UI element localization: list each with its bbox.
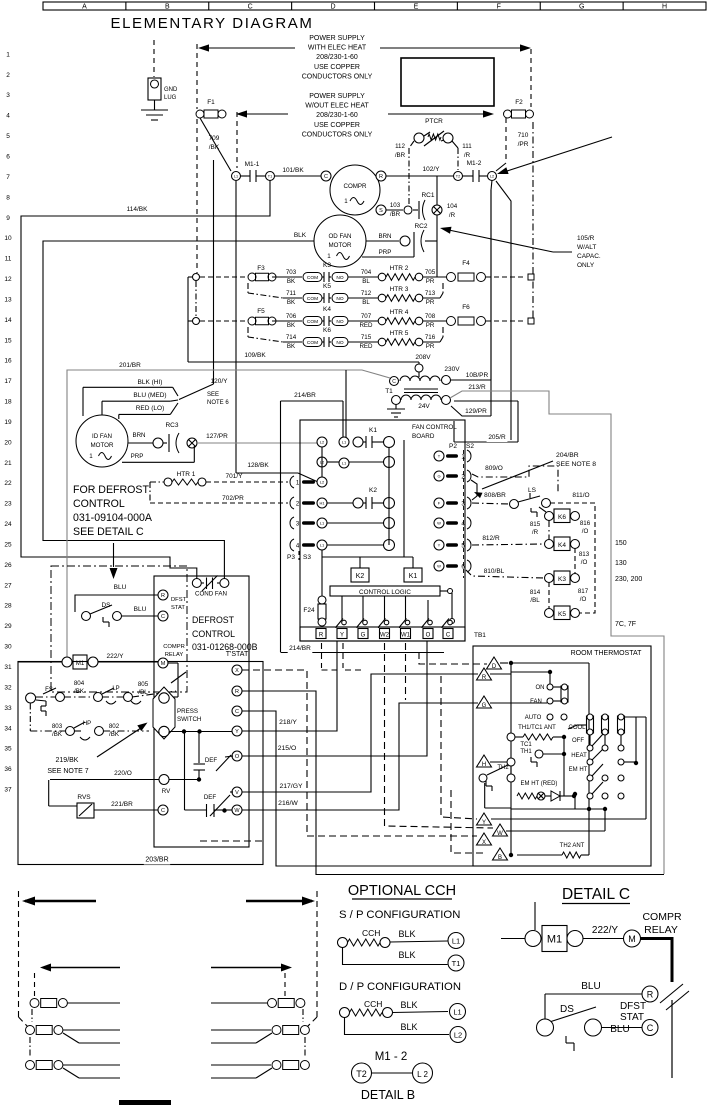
wires L2 drop [496,181,511,440]
svg-text:LUG: LUG [164,95,177,101]
svg-text:T'STAT: T'STAT [226,651,249,658]
svg-text:L1: L1 [320,520,325,525]
wire from T1 C to K1 [345,370,347,442]
svg-text:K1: K1 [369,427,377,434]
svg-text:7C, 7F: 7C, 7F [615,621,636,628]
svg-text:TC1: TC1 [520,742,532,748]
svg-text:F4: F4 [462,260,470,267]
thick wire from M [641,939,673,983]
svg-text:K2: K2 [369,487,377,494]
svg-text:HTR 4: HTR 4 [390,309,409,316]
svg-text:NO: NO [336,319,343,325]
svg-text:O: O [426,633,431,639]
svg-text:18: 18 [4,399,12,406]
svg-text:NO: NO [336,275,343,281]
terminal L1 d/p [450,1004,466,1020]
svg-text:USE COPPER: USE COPPER [314,64,360,71]
svg-text:BRN: BRN [378,233,391,240]
svg-text:35: 35 [4,746,12,753]
dashed stub Y terminal [342,643,344,668]
svg-text:M1: M1 [547,934,562,946]
svg-text:T1: T1 [268,174,272,178]
svg-text:SEE DETAIL C: SEE DETAIL C [73,526,144,538]
svg-text:215/O: 215/O [278,745,297,752]
svg-text:150: 150 [615,540,627,547]
terminal W [493,824,508,836]
svg-text:705: 705 [425,269,436,276]
svg-text:R: R [482,675,487,681]
svg-text:G: G [482,703,487,709]
svg-text:C: C [324,174,328,180]
svg-text:808/BR: 808/BR [484,492,506,499]
svg-text:PTCR: PTCR [425,118,443,125]
svg-text:RED (LO): RED (LO) [136,405,165,412]
svg-text:4: 4 [6,113,10,120]
svg-text:FAN: FAN [530,699,542,705]
svg-text:K5: K5 [323,283,331,290]
svg-text:105/R: 105/R [577,235,595,242]
svg-text:817: 817 [578,588,589,595]
svg-text:COM: COM [307,340,318,346]
svg-text:NO: NO [336,340,343,346]
terminal H [477,755,492,767]
svg-text:PR: PR [426,278,435,285]
svg-text:/BK: /BK [109,731,120,738]
svg-text:/O: /O [581,559,588,566]
wire dashes F4 to alt node [486,276,526,278]
svg-text:G: G [579,4,584,11]
svg-text:W/ALT: W/ALT [577,244,596,251]
outer box 203/BR [18,662,263,865]
svg-text:30: 30 [4,644,12,651]
svg-text:815: 815 [530,521,541,528]
wire RED (LO) [134,405,166,414]
svg-text:RV: RV [162,788,171,795]
svg-text:M1-2: M1-2 [467,160,482,167]
svg-text:C: C [161,614,165,620]
svg-text:816: 816 [580,520,591,527]
svg-text:ON: ON [536,685,545,691]
svg-text:T1: T1 [452,959,461,968]
svg-text:PR: PR [426,299,435,306]
svg-text:STAT: STAT [620,1012,644,1023]
svg-text:24: 24 [4,521,12,528]
svg-text:BL: BL [362,278,370,285]
compressor motor COMPR [330,165,380,215]
svg-text:813: 813 [579,551,590,558]
relay coil K2 [351,568,369,582]
svg-text:216/W: 216/W [278,800,298,807]
svg-text:W: W [437,563,441,568]
svg-text:DEF: DEF [205,757,218,764]
dashed drop W2 terminal to W triangle [385,643,494,828]
wire R t-stat [242,691,664,875]
svg-text:K1: K1 [409,573,418,580]
svg-text:DEFROST: DEFROST [192,615,235,625]
svg-text:SEE NOTE 7: SEE NOTE 7 [47,768,88,775]
svg-text:Y: Y [235,729,239,735]
svg-text:C: C [647,1023,654,1033]
relay contact K4 aux [554,537,570,551]
svg-text:EM HT (RED): EM HT (RED) [521,781,558,787]
wire 129/PR [464,408,489,417]
svg-text:33: 33 [4,705,12,712]
motor ID FAN [76,415,128,467]
svg-text:RED: RED [359,322,373,329]
terminal G [477,696,492,708]
svg-text:TB1: TB1 [474,632,486,639]
coil M compr relay [624,930,641,947]
internal bus to control logic [403,440,405,557]
svg-text:23: 23 [4,501,12,508]
svg-text:BLK: BLK [398,929,415,939]
svg-text:D / P CONFIGURATION: D / P CONFIGURATION [339,981,461,993]
svg-text:230, 200: 230, 200 [615,576,642,583]
terminal D [487,657,502,669]
dimension arrow top right [246,900,312,903]
svg-text:M1 - 2: M1 - 2 [375,1051,408,1063]
svg-text:W: W [437,520,441,525]
svg-text:K6: K6 [323,327,331,334]
svg-text:E: E [414,4,419,11]
svg-text:/R: /R [449,212,456,219]
svg-text:BK: BK [287,322,296,329]
svg-text:TH2 ANT: TH2 ANT [560,843,585,849]
svg-text:2: 2 [6,72,10,79]
svg-text:K6: K6 [558,514,566,521]
svg-text:Y: Y [438,542,441,547]
svg-text:K4: K4 [323,306,331,313]
svg-text:/BK: /BK [74,688,85,695]
svg-text:814: 814 [530,589,541,596]
gnd lug [148,78,161,100]
svg-text:W2: W2 [380,633,390,639]
svg-text:129/PR: 129/PR [465,408,487,415]
svg-text:R: R [647,990,654,1000]
svg-text:C: C [446,633,451,639]
svg-text:12: 12 [4,276,12,283]
svg-text:W/OUT ELEC HEAT: W/OUT ELEC HEAT [305,103,369,110]
svg-text:ROOM THERMOSTAT: ROOM THERMOSTAT [571,650,643,657]
vertical bus in thermostat [510,663,512,855]
svg-text:8: 8 [6,194,10,201]
svg-text:214/BR: 214/BR [294,392,316,399]
svg-text:BLK: BLK [400,1000,417,1010]
svg-text:L1: L1 [320,542,325,547]
plug fuse row 1 right [268,999,277,1008]
svg-text:715: 715 [361,334,372,341]
svg-text:R: R [235,689,239,695]
svg-text:C: C [248,4,253,11]
svg-text:PRESS: PRESS [177,708,198,715]
svg-text:201/BR: 201/BR [119,362,141,369]
border ruler top A-H [43,2,706,10]
svg-text:STAT: STAT [171,605,185,611]
wire 205/R loop [454,400,518,402]
dashed boundary right [316,891,318,1017]
svg-text:K5: K5 [558,611,566,618]
svg-text:120/Y: 120/Y [211,378,229,385]
svg-text:BLK: BLK [400,1022,417,1032]
svg-text:031-09104-000A: 031-09104-000A [73,512,153,524]
svg-text:L2: L2 [490,174,494,178]
brace to 120/Y [173,387,178,396]
terminal strip TB1 [300,627,465,641]
relay contact K3 aux [554,571,570,585]
connector pin P2-2 [434,471,444,481]
connector pin 1 [290,476,294,488]
svg-text:6: 6 [6,154,10,161]
inter-row dash-dot links [247,283,249,293]
svg-text:COMPR: COMPR [163,644,185,650]
contact COND FAN [192,579,201,588]
svg-text:POWER SUPPLY: POWER SUPPLY [309,93,365,100]
svg-text:BRN: BRN [132,432,145,439]
svg-text:809/O: 809/O [485,465,503,472]
svg-text:220/O: 220/O [114,770,132,777]
connector pin 4 [290,539,294,551]
svg-text:/O: /O [580,596,587,603]
svg-text:BK: BK [287,278,296,285]
terminal TB1 O [423,629,433,639]
svg-text:114/BK: 114/BK [127,206,149,213]
dashed boundary left [18,891,20,1017]
svg-text:CONTROL: CONTROL [73,498,125,510]
svg-text:32: 32 [4,684,12,691]
svg-text:W: W [234,808,240,814]
dashed inner left [34,973,36,996]
label block cut off [119,1100,171,1105]
svg-text:S: S [379,208,383,214]
svg-text:222/Y: 222/Y [107,653,125,660]
svg-text:O: O [235,754,240,760]
dashed feed D triangle [419,652,487,664]
bottom connections [587,807,591,811]
svg-text:1: 1 [327,253,331,260]
terminal Y [477,813,492,825]
svg-text:W1: W1 [401,633,411,639]
terminal R [477,668,492,680]
svg-text:OPTIONAL CCH: OPTIONAL CCH [348,883,456,899]
svg-text:H1: H1 [319,500,325,505]
svg-text:RVS: RVS [77,794,91,801]
svg-text:S2: S2 [466,443,474,450]
junction node heater bus top [193,274,200,281]
svg-text:DFST: DFST [171,597,187,603]
arrow power supply w/out elec heat span [241,113,288,115]
svg-text:21: 21 [4,460,12,467]
svg-text:F6: F6 [462,304,470,311]
svg-text:LS: LS [528,487,537,494]
svg-text:/R: /R [464,152,471,159]
svg-text:803: 803 [52,723,63,730]
svg-text:221/BR: 221/BR [111,801,133,808]
plug fuse row 3 left [26,1061,35,1070]
dfst stat contact R [158,590,168,600]
svg-text:/BL: /BL [530,597,540,604]
svg-text:S3: S3 [303,554,311,561]
svg-text:K3: K3 [558,576,566,583]
svg-text:D: D [492,664,497,670]
svg-text:230V: 230V [444,366,460,373]
switch arms [577,724,586,726]
connector pin P2-3 [434,498,444,508]
svg-text:TH1: TH1 [520,749,532,755]
svg-text:A: A [82,4,87,11]
relay contact K5 aux [554,606,570,620]
svg-text:V: V [235,790,239,796]
svg-text:L1: L1 [342,439,347,444]
svg-text:COMPR: COMPR [343,183,367,190]
sensor TH2 [507,758,515,766]
svg-text:RELAY: RELAY [165,652,184,658]
svg-text:RED: RED [359,343,373,350]
svg-text:COMPR: COMPR [642,911,682,923]
svg-text:707: 707 [361,313,372,320]
svg-text:BLU (MED): BLU (MED) [133,392,166,399]
compr relay contact [168,662,178,664]
svg-text:K2: K2 [356,573,365,580]
svg-text:DETAIL B: DETAIL B [361,1088,415,1102]
dash link rows left [31,1009,33,1022]
svg-text:802: 802 [109,723,120,730]
svg-text:B: B [165,4,170,11]
dashed feed B triangle [451,790,487,853]
svg-text:COND FAN: COND FAN [195,591,227,598]
svg-text:C: C [161,808,165,814]
svg-text:DETAIL C: DETAIL C [562,886,630,903]
svg-text:804: 804 [74,680,85,687]
svg-text:/BK: /BK [52,731,63,738]
svg-text:C: C [392,379,396,385]
transformer T1 primary [390,377,399,386]
bleed lamp 104/R [432,205,442,215]
svg-text:AUTO: AUTO [525,715,542,721]
svg-text:D: D [331,4,336,11]
relay M1 coil [73,655,87,669]
motor OD FAN [314,215,366,267]
svg-text:DS: DS [560,1004,574,1015]
svg-text:K3: K3 [323,262,331,269]
svg-text:G: G [437,473,440,478]
svg-text:L1: L1 [234,174,238,178]
arrow power supply with elec heat span [203,47,295,49]
svg-text:29: 29 [4,623,12,630]
svg-text:B: B [498,855,502,861]
alt capac dash-dot line [532,122,534,318]
control logic box [330,586,440,596]
svg-text:16: 16 [4,358,12,365]
svg-text:208V: 208V [415,354,431,361]
svg-text:704: 704 [361,269,372,276]
svg-text:222/Y: 222/Y [592,925,618,936]
dashed stub lower left [200,840,264,842]
svg-text:G: G [361,633,366,639]
svg-text:10B/PR: 10B/PR [466,372,489,379]
svg-text:706: 706 [286,313,297,320]
svg-text:PR: PR [426,343,435,350]
connector pin P2-6 [434,561,444,571]
svg-text:SEE NOTE 8: SEE NOTE 8 [556,461,596,468]
svg-text:BK: BK [287,299,296,306]
svg-text:219/BK: 219/BK [56,757,79,764]
svg-text:SEE: SEE [207,392,219,398]
svg-text:208/230-1-60: 208/230-1-60 [316,54,358,61]
svg-text:/BR: /BR [395,152,406,159]
svg-text:M: M [628,934,636,944]
terminal TB1 G [358,629,368,639]
svg-text:L1: L1 [452,937,460,946]
connector P1 row L2/L1 [317,457,327,467]
wire BLK (HI) [134,379,166,388]
plug fuse row 2 left [26,1026,35,1035]
svg-text:811/O: 811/O [572,492,589,499]
room thermostat box [473,646,651,866]
relay coil K1 [404,568,422,582]
svg-text:217/GY: 217/GY [279,783,303,790]
diode [551,791,560,801]
svg-text:37: 37 [4,787,12,794]
svg-text:H: H [482,762,486,768]
terminal B [493,848,508,860]
svg-text:HEAT: HEAT [571,753,587,759]
dashed drop W1 terminal [405,643,407,700]
svg-text:203/BR: 203/BR [145,857,168,864]
svg-text:24V: 24V [418,403,430,410]
svg-text:208/230-1-60: 208/230-1-60 [316,112,358,119]
svg-text:25: 25 [4,541,12,548]
svg-text:MOTOR: MOTOR [91,442,114,449]
svg-text:MOTOR: MOTOR [329,242,352,249]
svg-text:PR: PR [426,322,435,329]
terminal TB1 R [316,629,326,639]
svg-text:M: M [161,661,166,667]
sensor flags above terminals [342,620,347,625]
dashed stub R terminal [321,643,323,668]
wire 120/Y drop [213,160,215,384]
pressure switch hexagon [153,687,175,739]
terminal TB1 Y [337,629,347,639]
leader 105/R w/alt capac [444,229,553,252]
terminal TB1 W2 [380,629,390,639]
svg-text:714: 714 [286,334,297,341]
svg-text:P3: P3 [287,554,295,561]
svg-text:/BR: /BR [390,211,401,218]
wire Y from press switch [170,731,233,733]
svg-text:F3: F3 [257,265,265,272]
svg-text:M1: M1 [76,661,85,667]
svg-text:CCH: CCH [362,928,380,938]
ground symbol secondary [395,404,397,409]
svg-text:COM: COM [307,319,318,325]
svg-text:POWER SUPPLY: POWER SUPPLY [309,35,365,42]
defrost control board box [154,576,249,847]
svg-text:RC1: RC1 [421,192,434,199]
svg-text:812/R: 812/R [482,535,500,542]
svg-text:BLK (HI): BLK (HI) [138,379,163,386]
svg-text:ID FAN: ID FAN [92,433,112,440]
svg-text:104: 104 [447,203,458,210]
svg-text:R: R [379,174,383,180]
svg-text:WITH ELEC HEAT: WITH ELEC HEAT [308,45,367,52]
svg-text:TH1/TC1 ANT: TH1/TC1 ANT [518,725,556,731]
connector pin P2-1 [434,451,444,461]
svg-text:USE COPPER: USE COPPER [314,122,360,129]
svg-text:COM: COM [307,296,318,302]
svg-text:BL: BL [362,299,370,306]
svg-text:103: 103 [390,202,401,209]
svg-text:3: 3 [6,92,10,99]
